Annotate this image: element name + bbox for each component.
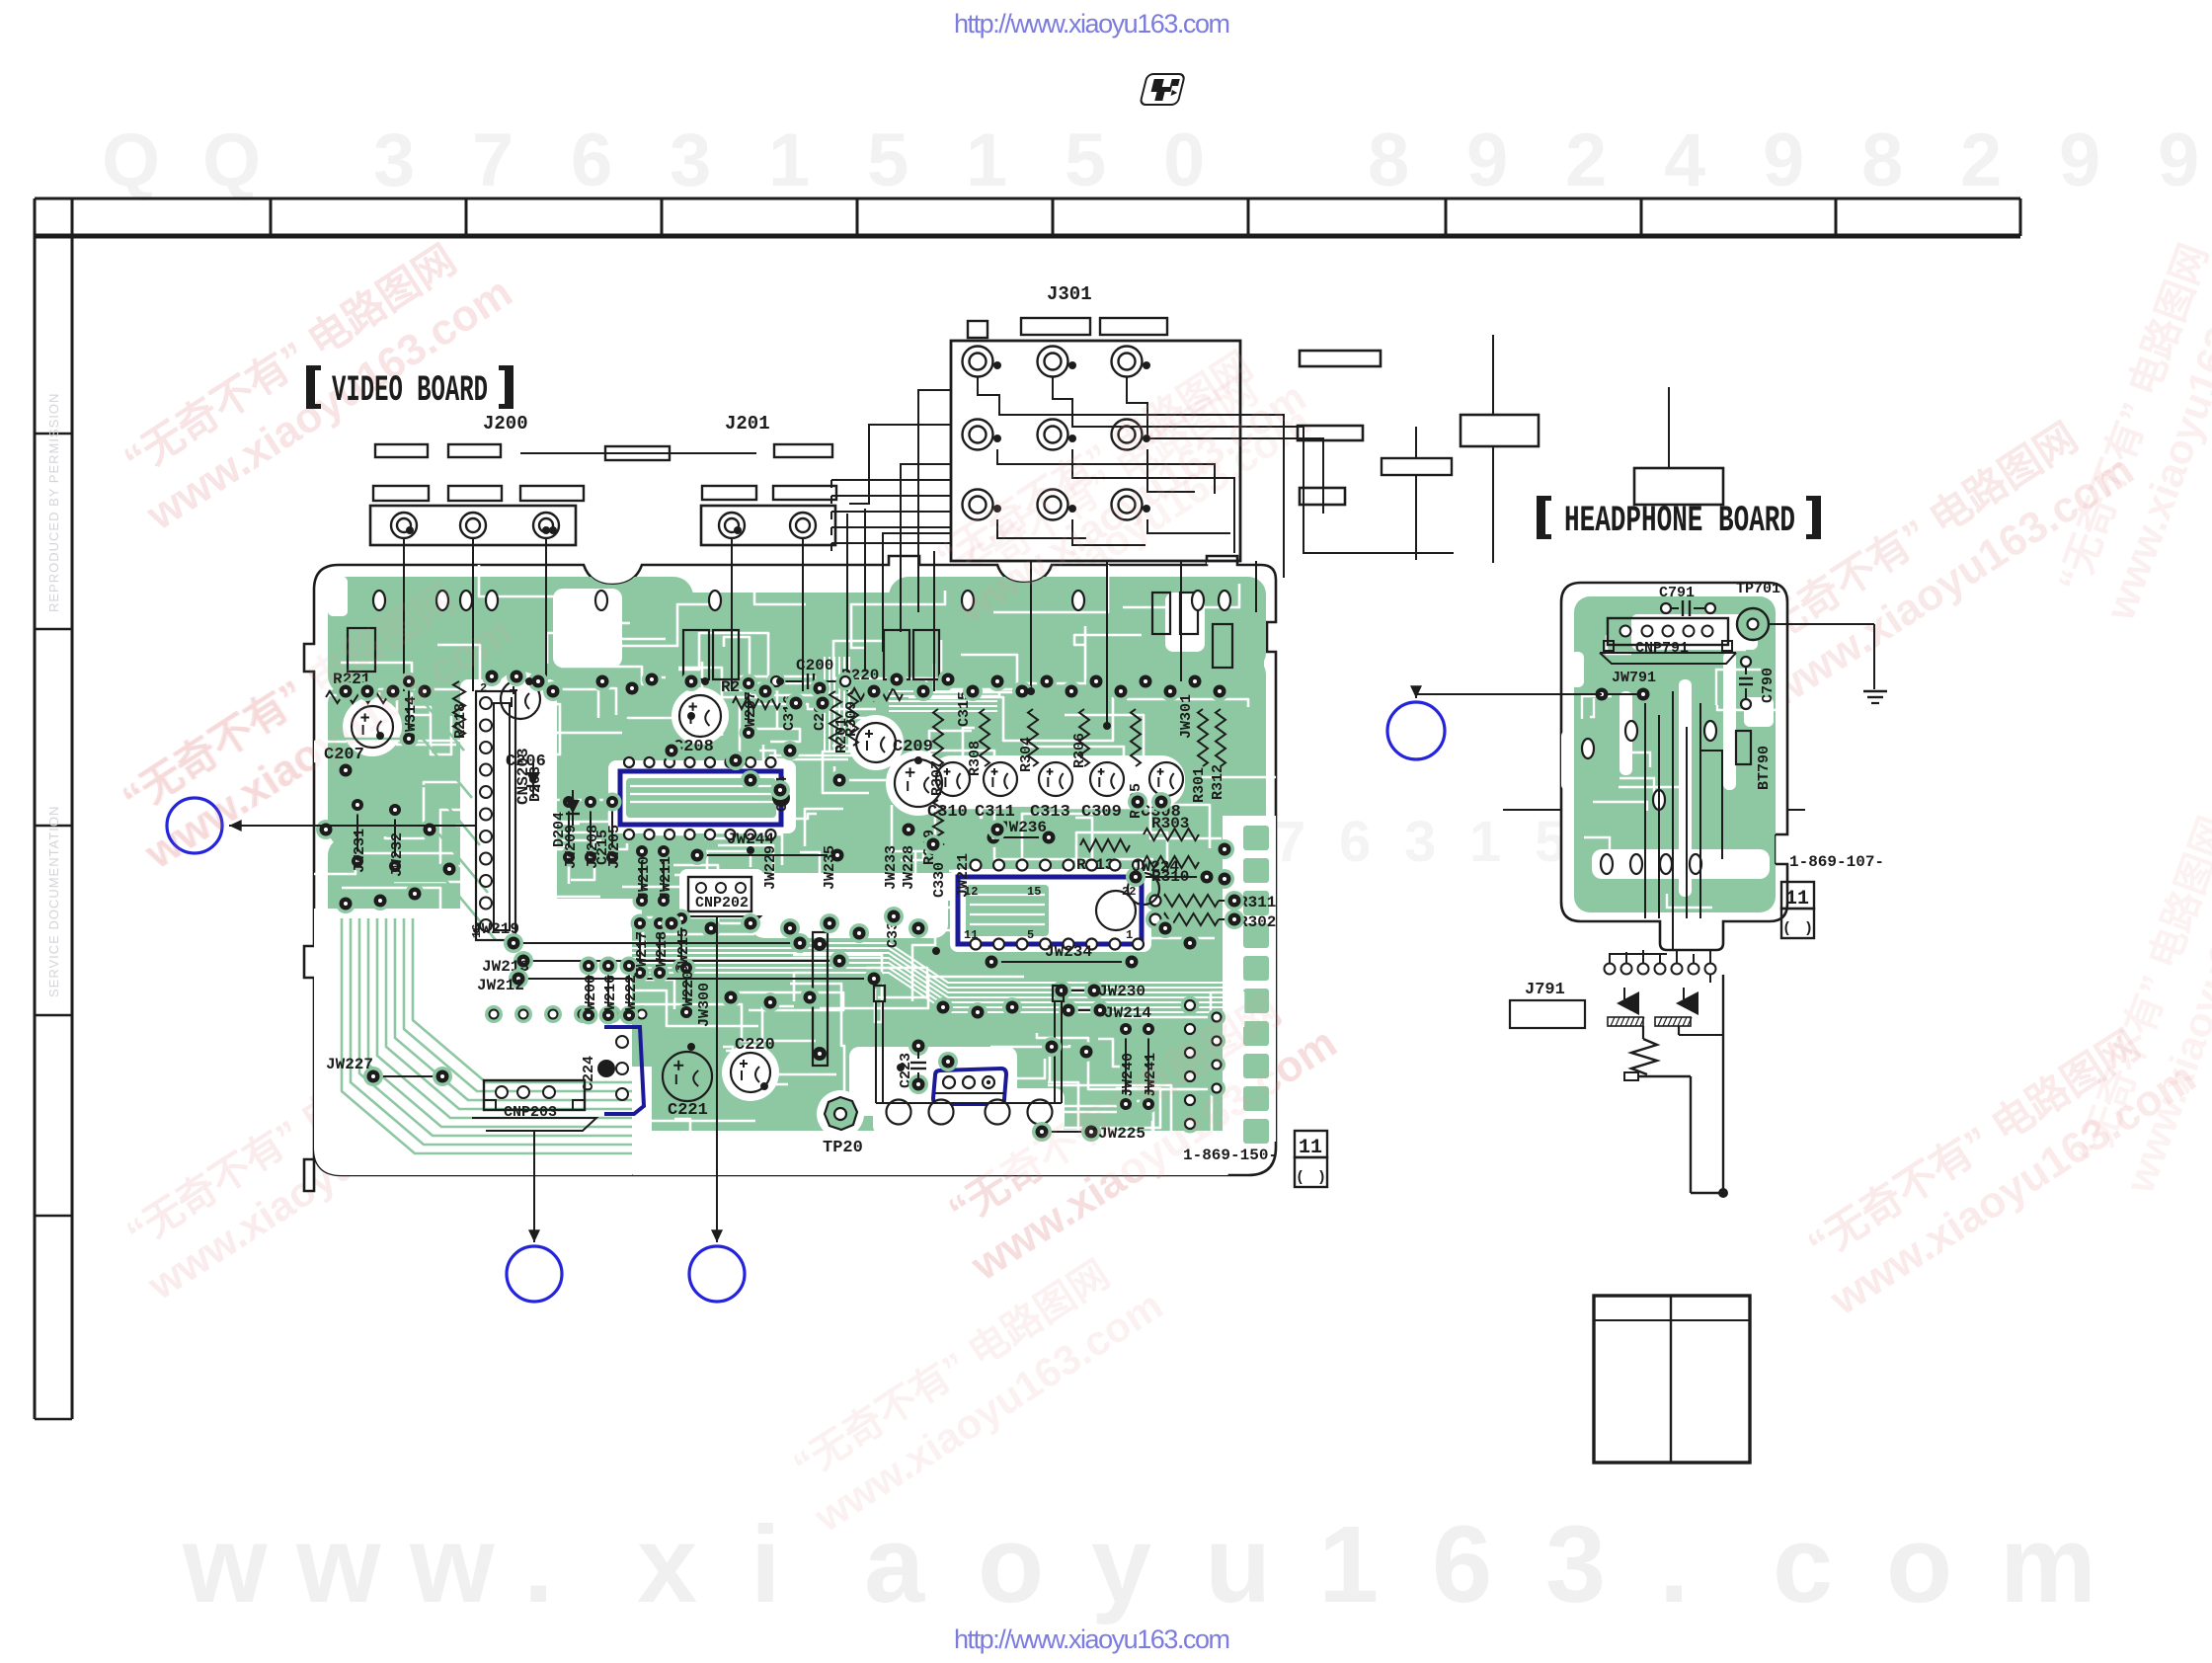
svg-text:JW227: JW227 [326, 1056, 373, 1073]
svg-text:8: 8 [1861, 119, 1903, 202]
svg-text:VIDEO BOARD: VIDEO BOARD [332, 370, 488, 412]
svg-text:1: 1 [1318, 1504, 1379, 1625]
svg-text:TP20: TP20 [823, 1139, 863, 1157]
svg-text:C224: C224 [581, 1056, 597, 1091]
svg-text:a: a [864, 1504, 925, 1625]
svg-text:.: . [1659, 1504, 1690, 1625]
svg-text:R302: R302 [1238, 913, 1276, 931]
svg-text:22: 22 [1122, 885, 1136, 899]
svg-text:REPRODUCED BY PERMISSION: REPRODUCED BY PERMISSION [46, 393, 61, 612]
svg-text:y: y [1091, 1504, 1151, 1625]
svg-text:C791: C791 [1659, 585, 1695, 601]
svg-text:): ) [1317, 1169, 1326, 1186]
svg-text:JW224: JW224 [1132, 858, 1179, 876]
svg-text:8: 8 [1368, 119, 1409, 202]
svg-text:2: 2 [1565, 119, 1607, 202]
svg-text:JW217: JW217 [634, 931, 651, 976]
svg-text:R301: R301 [1191, 767, 1208, 803]
svg-text:R309: R309 [843, 701, 860, 737]
svg-text:C220: C220 [735, 1036, 775, 1055]
svg-text:11: 11 [964, 928, 978, 942]
svg-text:J200: J200 [483, 413, 528, 435]
svg-text:SERVICE DOCUMENTATION: SERVICE DOCUMENTATION [46, 806, 61, 997]
svg-text:JW216: JW216 [602, 975, 619, 1019]
svg-text:c: c [1773, 1504, 1833, 1625]
svg-text:http://www.xiaoyu163.com: http://www.xiaoyu163.com [954, 1624, 1230, 1654]
svg-text:C215: C215 [594, 830, 611, 865]
svg-text:15: 15 [1027, 885, 1041, 899]
svg-text:6: 6 [571, 119, 612, 202]
svg-text:3: 3 [670, 119, 711, 202]
svg-text:.: . [523, 1504, 554, 1625]
svg-text:JW233: JW233 [883, 845, 900, 890]
svg-text:JW218: JW218 [654, 931, 671, 976]
svg-text:Q: Q [202, 119, 261, 202]
svg-text:JW300: JW300 [696, 983, 713, 1027]
svg-text:JW220: JW220 [680, 971, 697, 1015]
svg-text:): ) [1804, 920, 1813, 937]
svg-text:JW215: JW215 [675, 928, 692, 973]
svg-text:http://www.xiaoyu163.com: http://www.xiaoyu163.com [954, 9, 1230, 39]
svg-text:11: 11 [1299, 1137, 1322, 1159]
svg-text:5: 5 [1027, 928, 1034, 942]
svg-text:J791: J791 [1525, 981, 1565, 999]
svg-text:R312: R312 [1210, 764, 1226, 800]
svg-text:3: 3 [1404, 810, 1436, 874]
svg-text:JW210: JW210 [636, 856, 653, 901]
svg-text:w: w [182, 1504, 268, 1625]
svg-text:6: 6 [1339, 810, 1371, 874]
svg-text:11: 11 [1785, 888, 1809, 911]
svg-text:JW791: JW791 [1612, 670, 1656, 686]
svg-text:JW207: JW207 [743, 691, 759, 736]
svg-text:3: 3 [373, 119, 415, 202]
svg-text:9: 9 [1466, 119, 1508, 202]
svg-text:1-869-107-: 1-869-107- [1789, 853, 1884, 871]
svg-text:R304: R304 [1018, 737, 1035, 772]
svg-text:u: u [1205, 1504, 1271, 1625]
svg-text:D203: D203 [527, 766, 544, 802]
svg-text:JW221: JW221 [955, 853, 972, 898]
svg-text:o: o [1886, 1504, 1952, 1625]
svg-text:TP701: TP701 [1736, 581, 1780, 597]
svg-text:C309: C309 [1081, 803, 1122, 822]
svg-text:C330: C330 [931, 862, 948, 898]
svg-text:J301: J301 [1047, 283, 1092, 305]
svg-text:JW229: JW229 [762, 845, 779, 890]
svg-text:C221: C221 [668, 1101, 708, 1120]
svg-text:3: 3 [1545, 1504, 1606, 1625]
svg-text:w: w [409, 1504, 495, 1625]
svg-text:JW301: JW301 [1178, 694, 1195, 739]
svg-text:JW222: JW222 [623, 975, 640, 1019]
svg-text:CNP791: CNP791 [1635, 640, 1689, 657]
svg-text:(: ( [1782, 920, 1791, 937]
svg-text:C310: C310 [927, 803, 968, 822]
svg-text:R306: R306 [1071, 733, 1088, 768]
svg-text:R308: R308 [967, 741, 984, 776]
svg-text:HEADPHONE BOARD: HEADPHONE BOARD [1564, 501, 1795, 542]
svg-text:R307: R307 [929, 760, 946, 796]
svg-text:9: 9 [1763, 119, 1804, 202]
svg-text:(: ( [1296, 1169, 1304, 1186]
svg-text:o: o [978, 1504, 1044, 1625]
svg-text:BT790: BT790 [1756, 746, 1773, 790]
svg-text:0: 0 [1163, 119, 1205, 202]
svg-text:C200: C200 [796, 657, 833, 674]
svg-text:JW214: JW214 [1104, 1004, 1151, 1022]
svg-text:x: x [637, 1504, 697, 1625]
svg-text:4: 4 [1664, 119, 1705, 202]
svg-text:CNP202: CNP202 [695, 895, 749, 911]
svg-text:R303: R303 [1151, 815, 1189, 832]
svg-text:m: m [2000, 1504, 2096, 1625]
svg-text:JW200: JW200 [583, 975, 599, 1019]
svg-text:JW234: JW234 [1045, 943, 1092, 961]
svg-text:5: 5 [867, 119, 908, 202]
svg-text:9: 9 [2158, 119, 2199, 202]
svg-text:1: 1 [1126, 928, 1133, 942]
svg-text:JW212: JW212 [477, 977, 524, 994]
svg-text:R218: R218 [452, 703, 469, 739]
svg-text:i: i [750, 1504, 781, 1625]
svg-text:JW232: JW232 [389, 832, 406, 877]
svg-text:1: 1 [768, 119, 810, 202]
svg-text:7: 7 [472, 119, 513, 202]
svg-text:JW235: JW235 [822, 845, 838, 890]
svg-text:6: 6 [1432, 1504, 1492, 1625]
svg-text:1: 1 [1469, 810, 1501, 874]
svg-text:JW231: JW231 [352, 829, 368, 873]
svg-text:D204: D204 [551, 812, 568, 847]
svg-text:J201: J201 [725, 413, 770, 435]
svg-text:5: 5 [1065, 119, 1106, 202]
svg-text:9: 9 [2059, 119, 2100, 202]
svg-text:Q: Q [102, 119, 160, 202]
svg-text:JW211: JW211 [658, 856, 674, 901]
svg-text:2: 2 [1960, 119, 2002, 202]
svg-text:JW219: JW219 [472, 920, 519, 938]
svg-text:JW228: JW228 [901, 845, 917, 890]
svg-text:7: 7 [1274, 810, 1305, 874]
svg-text:1: 1 [966, 119, 1007, 202]
svg-text:C206: C206 [506, 752, 546, 771]
svg-text:C790: C790 [1760, 668, 1777, 703]
svg-text:C209: C209 [893, 738, 933, 756]
svg-text:JW230: JW230 [1098, 983, 1145, 1000]
svg-text:w: w [295, 1504, 381, 1625]
